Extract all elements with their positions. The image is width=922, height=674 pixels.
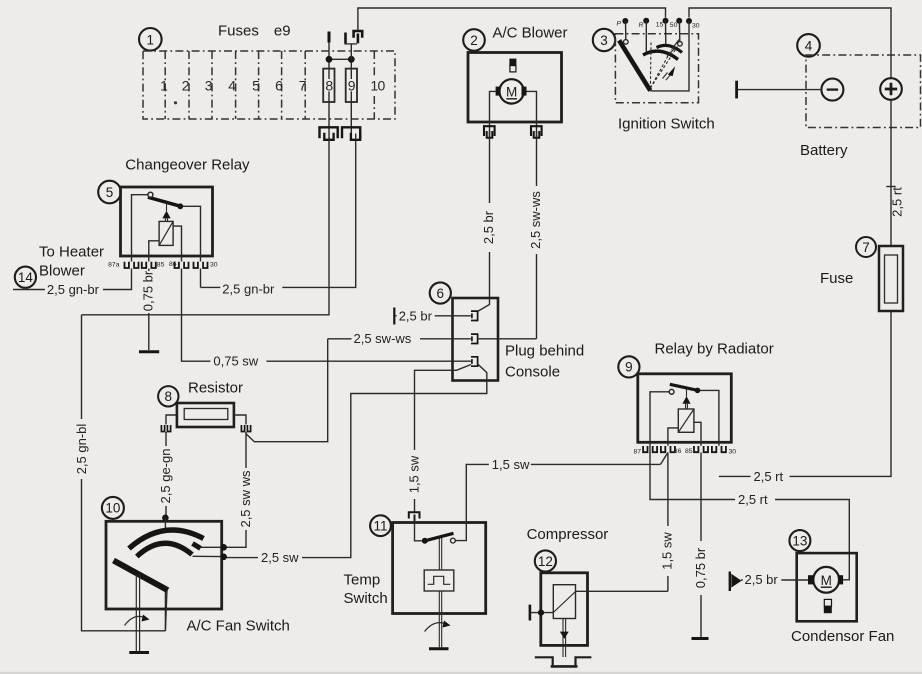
- connector below blower left: [484, 126, 495, 138]
- rotation arrow (temp switch): [425, 621, 451, 632]
- wire coil to 85: [694, 422, 701, 445]
- svg-text:Console: Console: [505, 364, 560, 381]
- terminal 30: [650, 18, 699, 91]
- svg-text:Ignition Switch: Ignition Switch: [618, 116, 715, 133]
- circled 6 (plug behind console): [430, 282, 451, 303]
- wire flag to motor: [741, 579, 808, 581]
- upper contact arc: [657, 45, 683, 52]
- feed flag 2,5 br: [730, 572, 742, 592]
- fuse F8: [323, 69, 334, 102]
- svg-text:0,75 br: 0,75 br: [140, 270, 155, 311]
- feed T-bar at compressor: [529, 605, 532, 621]
- wire ignition 15 to fuse 9 (top rail left): [358, 8, 666, 31]
- circled 14 (to heater blower): [15, 267, 36, 288]
- switch shaft: [136, 575, 139, 652]
- connector below fuse 9: [342, 127, 360, 140]
- label 0,75 sw: [210, 354, 266, 369]
- wire fuse 7 down to relay 30 (2,5 rt): [719, 311, 891, 476]
- wire battery + down to fuse (2,5 rt): [890, 100, 892, 246]
- svg-text:4: 4: [228, 78, 236, 94]
- wire 86 to plug pin3 (0,75 sw): [182, 269, 471, 362]
- motor M2 (condensor fan): [808, 567, 843, 593]
- svg-text:2,5 br: 2,5 br: [481, 210, 496, 244]
- temp switch lever: [425, 533, 454, 541]
- relay housing: [638, 374, 732, 443]
- svg-text:0,75 br: 0,75 br: [693, 547, 708, 588]
- tick on wire above label: [886, 186, 895, 188]
- wire 30 up to label (2,5 gn-br right): [200, 269, 202, 288]
- wire fuse 8 down to cross rail: [82, 138, 330, 315]
- label 2,5 ge-gn vertical: [158, 446, 173, 506]
- brush symbol: [509, 59, 516, 72]
- svg-text:85: 85: [157, 262, 165, 269]
- svg-text:2,5 rt: 2,5 rt: [890, 187, 905, 217]
- svg-text:2,5 gn-br: 2,5 gn-br: [47, 282, 100, 297]
- relay K2 switch lever: [670, 384, 698, 390]
- svg-text:2,5 sw ws: 2,5 sw ws: [238, 470, 253, 528]
- connector above fuse 9 (to ignition sw terminal 15): [344, 31, 362, 59]
- contact tick right: [193, 544, 201, 549]
- pin 2 (plug): [471, 334, 478, 343]
- connector above temp switch: [409, 512, 420, 521]
- pin 30 (relay 9): [712, 446, 736, 456]
- svg-text:Plug behind: Plug behind: [505, 343, 584, 360]
- pin 3 (plug): [471, 357, 478, 366]
- circled 13 (condensor fan): [789, 530, 810, 551]
- wire 2,5 br down to plug pin 1: [478, 131, 490, 311]
- ignition switch housing (dash-dot): [615, 34, 698, 103]
- circled 2 (A/C blower): [463, 29, 485, 51]
- wire 85 to ground (0,75 br): [148, 269, 150, 351]
- ground (changeover 85): [139, 350, 159, 353]
- junction dot fuse 9 feed: [348, 56, 355, 63]
- svg-text:Changeover Relay: Changeover Relay: [125, 157, 250, 174]
- wire 2,5 gn-bl down left side: [82, 315, 166, 631]
- relay K1 switch lever: [148, 197, 180, 206]
- svg-text:3: 3: [600, 33, 608, 48]
- wire wiper to gn-bl trunk: [165, 590, 167, 631]
- svg-text:86: 86: [169, 261, 177, 268]
- junction dot on compressor housing: [538, 610, 544, 616]
- pin 85 (relay 9): [685, 446, 708, 455]
- pin 86 (relay 9): [661, 446, 682, 455]
- circled 9 (relay by radiator): [618, 356, 639, 377]
- svg-text:13: 13: [792, 533, 807, 548]
- svg-text:Temp: Temp: [344, 572, 381, 589]
- plug housing: [453, 298, 499, 381]
- svg-text:50: 50: [670, 22, 678, 29]
- contact circle (50 side): [678, 42, 683, 47]
- svg-text:8: 8: [165, 389, 173, 404]
- ground strap T-bar at minus: [735, 81, 738, 99]
- junction dot fuse 8 feed: [326, 56, 333, 63]
- label 2,5 br (condensor): [743, 572, 782, 587]
- relay K1 coil: [159, 221, 173, 245]
- leader to lower terminal: [193, 555, 223, 557]
- ground (relay 9 terminal 85): [692, 637, 709, 640]
- label 2,5 gn-bl: [74, 419, 89, 479]
- svg-text:Relay by Radiator: Relay by Radiator: [655, 341, 774, 358]
- wire 86 diagonal to temp switch rail: [661, 453, 668, 465]
- svg-text:Switch: Switch: [344, 590, 388, 607]
- svg-text:10: 10: [105, 501, 120, 516]
- svg-text:A/C Fan Switch: A/C Fan Switch: [187, 617, 290, 634]
- svg-text:1,5 sw: 1,5 sw: [660, 532, 675, 570]
- resistor right pin: [241, 425, 250, 432]
- rotation arrow: [125, 615, 150, 626]
- label 2,5 gn-br right: [220, 282, 282, 297]
- svg-text:14: 14: [18, 270, 34, 285]
- pin 87a: [108, 262, 138, 269]
- lower contact arc: [643, 51, 678, 59]
- compressor housing: [541, 573, 588, 646]
- svg-text:A/C Blower: A/C Blower: [493, 25, 568, 42]
- svg-text:11: 11: [373, 519, 387, 534]
- svg-text:2,5 br: 2,5 br: [399, 308, 433, 323]
- circled 12 (compressor): [535, 550, 556, 571]
- wire contact to 87a: [132, 195, 148, 262]
- svg-text:12: 12: [538, 554, 553, 569]
- wire 2,5 ge-gn resistor to fan switch: [165, 432, 167, 518]
- svg-text:4: 4: [805, 38, 813, 53]
- svg-text:2,5 br: 2,5 br: [745, 572, 779, 587]
- wire fuse 9 down to changeover terminal 30: [201, 134, 356, 288]
- brush symbol (condensor fan): [824, 599, 832, 613]
- stub terminal above fuse 8: [328, 42, 330, 56]
- connector below fuse 8: [320, 127, 338, 140]
- svg-text:6: 6: [275, 78, 283, 94]
- turn-direction arrow: [663, 66, 676, 80]
- relay K1 actuator arrow: [162, 203, 170, 222]
- resistor left pin: [161, 425, 170, 432]
- svg-text:Fuses e9: Fuses e9: [218, 23, 291, 40]
- wire contact to 87: [650, 392, 669, 446]
- hash tick across lower arc: [667, 48, 676, 57]
- label 2,5 sw-ws horizontal: [352, 331, 421, 346]
- wire stub 2,5 br with end tick: [393, 308, 395, 325]
- pin 30: [194, 262, 218, 269]
- wire battery + to ignition 30 (top rail right): [689, 8, 891, 78]
- wire minus terminal to strap: [738, 89, 822, 91]
- circled 11 (temp switch): [370, 515, 391, 536]
- svg-text:5: 5: [252, 78, 260, 94]
- battery plus terminal: [880, 78, 902, 100]
- clutch coil: [553, 585, 575, 619]
- circled 10 (fan switch): [102, 497, 124, 519]
- label 2,5 sw: [258, 550, 302, 565]
- svg-text:1,5 sw: 1,5 sw: [407, 455, 422, 493]
- fan switch housing: [106, 521, 222, 609]
- wire into temp switch contact: [415, 520, 423, 541]
- svg-text:9: 9: [348, 78, 356, 94]
- label 0,75 br vertical (relay 9): [693, 541, 708, 595]
- svg-text:15: 15: [656, 21, 664, 28]
- connector below blower right: [531, 126, 542, 138]
- wire link between fuse 8 and fuse 9 feeds: [329, 58, 351, 60]
- changeover relay housing: [121, 187, 213, 256]
- fuse slot numbers: [160, 78, 385, 94]
- wiper bar: [114, 561, 168, 591]
- circled 1 (fuse box): [139, 28, 162, 51]
- fuse slot dividers: [165, 51, 374, 119]
- label 0,75 br vertical: [140, 270, 155, 313]
- svg-text:2: 2: [182, 78, 190, 94]
- terminal 50: [670, 18, 682, 42]
- svg-text:2,5 rt: 2,5 rt: [754, 469, 784, 484]
- battery minus terminal: [821, 79, 843, 101]
- svg-text:2,5 sw-ws: 2,5 sw-ws: [528, 191, 543, 249]
- svg-text:P: P: [617, 21, 622, 28]
- wire 86 down to compressor (1,5 sw): [667, 453, 669, 592]
- svg-text:87: 87: [633, 449, 641, 456]
- stub into fan switch: [164, 518, 166, 530]
- svg-text:Resistor: Resistor: [188, 380, 243, 397]
- wire 2,5 sw ws resistor to fan switch: [224, 432, 246, 547]
- wire fuse 9 through-feed: [350, 59, 352, 134]
- label 2,5 br vertical: [481, 203, 497, 252]
- battery housing (dash-dot): [806, 55, 921, 128]
- wire 2,5 sw-ws down to plug pin 2 line: [536, 131, 538, 339]
- label 1,5 sw vertical: [407, 450, 422, 499]
- label 2,5 gn-br left: [45, 282, 103, 297]
- wire blower right terminal down: [527, 91, 537, 139]
- rotor dashed positions: [649, 43, 652, 89]
- label 1,5 sw horizontal: [489, 457, 531, 472]
- wire 85 down to ground (0,75 br): [700, 453, 702, 638]
- circled 5 (changeover relay): [98, 181, 121, 204]
- temp sensing element: [424, 570, 454, 591]
- resistor R1 body: [177, 403, 234, 427]
- ground (fan switch shaft): [129, 651, 149, 654]
- ignition key lever: [619, 40, 650, 90]
- A/C blower housing: [468, 53, 562, 123]
- fuse 7 body: [879, 246, 903, 311]
- shaft below sensor: [439, 591, 441, 647]
- svg-text:Battery: Battery: [800, 142, 848, 159]
- circled 7 (fuse): [856, 237, 876, 257]
- svg-text:6: 6: [437, 286, 445, 301]
- label 1,5 sw vertical (compressor): [660, 526, 675, 576]
- svg-text:1: 1: [160, 78, 168, 94]
- wire resistor right lead: [234, 415, 246, 425]
- wire coil to 85: [149, 241, 159, 262]
- svg-text:M: M: [506, 84, 517, 99]
- fuse box housing: [143, 51, 395, 119]
- svg-text:30: 30: [729, 449, 737, 456]
- motor M1 (blower): [496, 79, 527, 103]
- temp switch housing: [393, 523, 486, 614]
- svg-text:10: 10: [370, 78, 385, 94]
- wire temp switch to 1,5 sw rail: [455, 464, 660, 540]
- svg-text:30: 30: [210, 262, 218, 269]
- wire 87 to condensor fan (2,5 rt): [650, 446, 849, 580]
- svg-text:3: 3: [205, 78, 213, 94]
- terminal P: [617, 18, 629, 39]
- wire lever to 30: [698, 390, 719, 445]
- svg-text:2,5 rt: 2,5 rt: [738, 492, 768, 507]
- svg-text:Compressor: Compressor: [527, 526, 609, 543]
- leader to upper terminal: [201, 546, 223, 548]
- relay K2 coil: [678, 409, 694, 432]
- svg-text:7: 7: [299, 78, 307, 94]
- wire coil to 86: [668, 428, 678, 446]
- condensor fan housing: [797, 553, 857, 621]
- capillary link: [439, 538, 441, 570]
- pin 87 (relay 9): [633, 446, 657, 456]
- svg-text:7: 7: [862, 240, 870, 255]
- wire coil to relay 86 (1,5 sw): [576, 590, 668, 592]
- wire pin3 branch to fan switch 2,5 sw: [224, 364, 487, 558]
- wire 87a to heater blower (2,5 gn-br): [13, 269, 132, 290]
- label 2,5 rt (relay 30 to fuse7): [751, 469, 790, 484]
- svg-text:5: 5: [106, 185, 114, 200]
- pin 86: [169, 261, 189, 268]
- junction dot feed into fan switch: [162, 515, 169, 522]
- wire pin3 branch to temp switch: [415, 365, 472, 513]
- wire lever to 30: [183, 206, 201, 261]
- svg-text:Condensor Fan: Condensor Fan: [791, 628, 894, 645]
- wire T-bar into compressor: [531, 612, 553, 614]
- pivot contact circle (P side): [624, 40, 629, 45]
- svg-text:M: M: [821, 573, 832, 588]
- svg-text:2: 2: [470, 33, 478, 48]
- wire resistor left lead: [166, 415, 177, 425]
- svg-text:2,5 ge-gn: 2,5 ge-gn: [158, 449, 173, 504]
- wire fuse 8 through-feed: [328, 59, 330, 141]
- svg-text:87a: 87a: [108, 262, 120, 269]
- circled 3 (ignition switch): [593, 29, 615, 51]
- wire coil to 86: [173, 226, 181, 261]
- svg-text:2,5 sw-ws: 2,5 sw-ws: [354, 331, 412, 346]
- svg-text:2,5 sw: 2,5 sw: [261, 550, 299, 565]
- wire sw-ws trunk to pin 2: [328, 338, 537, 340]
- label 2,5 rt (to condensor fan): [735, 492, 775, 507]
- svg-text:0,75 sw: 0,75 sw: [213, 354, 258, 369]
- fuse F9: [346, 69, 357, 102]
- svg-text:8: 8: [325, 78, 333, 94]
- svg-text:1: 1: [147, 32, 155, 47]
- svg-text:30: 30: [692, 23, 700, 30]
- terminal dot upper (to resistor): [220, 544, 227, 551]
- chassis ground (compressor): [535, 657, 592, 666]
- label 2,5 sw-ws vertical: [528, 186, 544, 254]
- dot mark in slot 2: [174, 101, 177, 104]
- terminal R: [639, 18, 650, 52]
- wire blower left terminal down: [490, 91, 496, 139]
- svg-text:9: 9: [625, 360, 633, 375]
- clutch shaft with arrow: [563, 619, 566, 658]
- svg-text:R: R: [639, 22, 644, 29]
- label 2,5 br: [397, 308, 435, 323]
- relay K2 actuator arrow: [682, 390, 690, 410]
- terminal dot lower (2,5 sw): [220, 554, 227, 561]
- pin 85: [142, 262, 165, 269]
- label 2,5 sw ws vertical: [238, 468, 253, 530]
- svg-text:1,5 sw: 1,5 sw: [492, 457, 530, 472]
- pin 1 (plug): [471, 311, 478, 320]
- svg-text:2,5 gn-bl: 2,5 gn-bl: [74, 424, 89, 475]
- fan switch upper contact arc: [129, 530, 204, 548]
- svg-text:Blower: Blower: [39, 263, 85, 280]
- svg-text:2,5 gn-br: 2,5 gn-br: [222, 282, 275, 297]
- wire sw-ws down to resistor: [246, 339, 328, 442]
- ground (temp switch): [429, 647, 449, 650]
- scanner edge strip bottom: [0, 672, 922, 674]
- svg-text:85: 85: [685, 448, 693, 455]
- terminal 15: [656, 18, 669, 46]
- svg-text:86: 86: [674, 448, 682, 455]
- svg-text:Fuse: Fuse: [820, 270, 853, 287]
- svg-text:To Heater: To Heater: [39, 244, 104, 261]
- fan switch lower contact arc: [137, 543, 192, 556]
- circled 4 (battery): [797, 34, 820, 57]
- wire up into fan switch wiper: [164, 590, 166, 631]
- circled 8 (resistor): [158, 386, 178, 406]
- hash tick across upper arc: [672, 40, 679, 50]
